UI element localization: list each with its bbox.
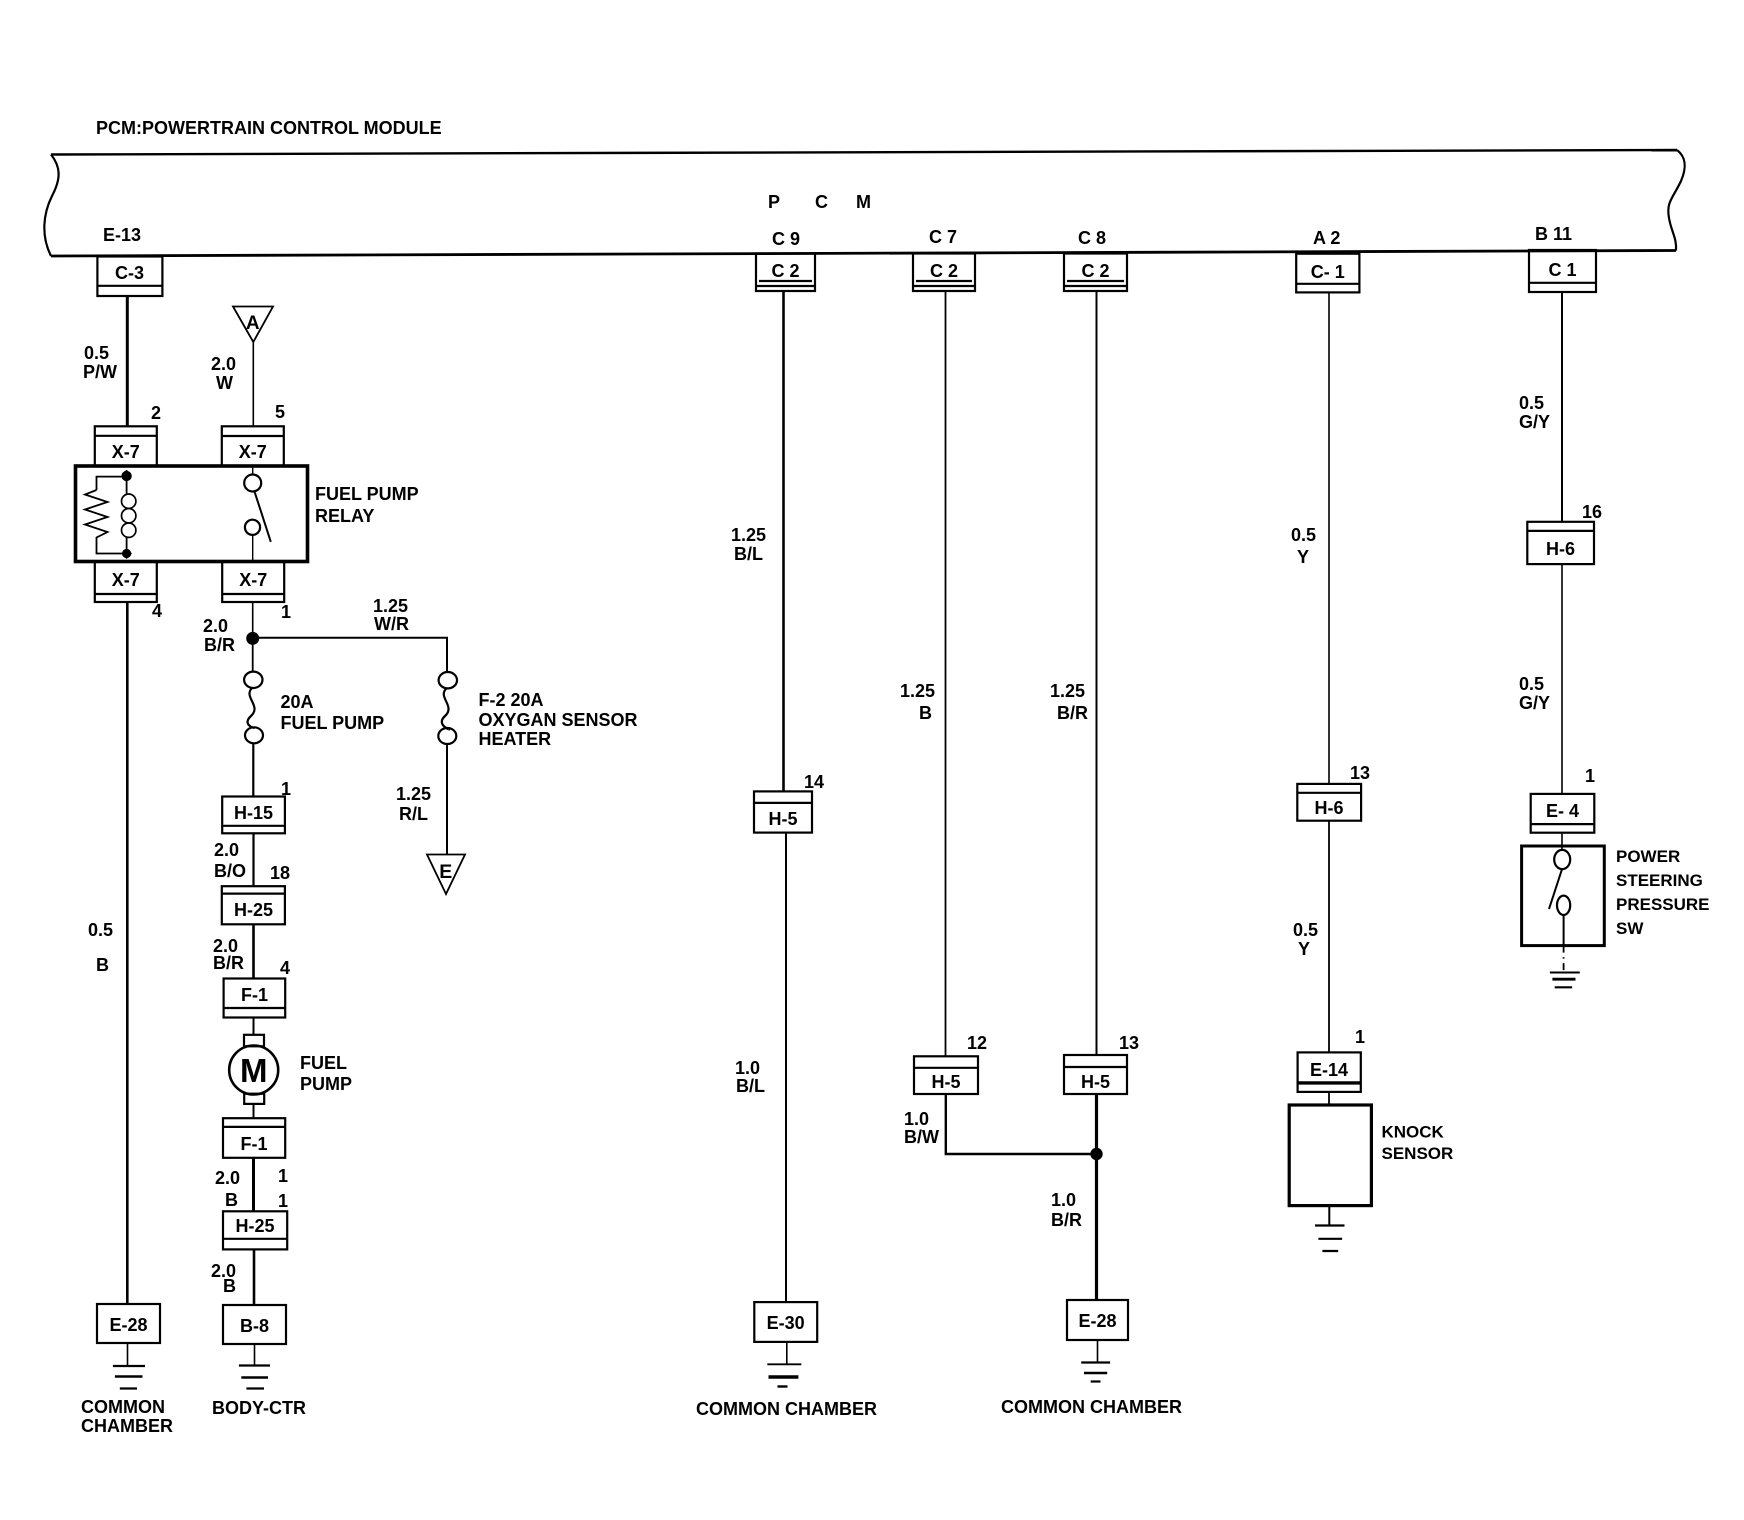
connector H-6 (A2 col): [1297, 784, 1361, 821]
svg-text:P: P: [768, 192, 780, 212]
svg-text:1.25: 1.25: [373, 596, 408, 616]
svg-text:0.5: 0.5: [1519, 674, 1544, 694]
label BODY-CTR: [212, 1398, 306, 1418]
wire H-6 to E-14 (0.5 Y): [1328, 821, 1330, 1053]
svg-text:1.0: 1.0: [1051, 1190, 1076, 1210]
connector H-5 (C7 col): [914, 1056, 978, 1094]
wire F-1 to H-25 (2.0 B): [252, 1158, 255, 1212]
label 0.5 Y upper: [1291, 525, 1316, 567]
svg-text:C: C: [815, 192, 828, 212]
label 0.5 P/W: [83, 343, 117, 382]
svg-text:0.5: 0.5: [84, 343, 109, 363]
svg-text:1: 1: [278, 1166, 288, 1186]
svg-text:1.0: 1.0: [904, 1109, 929, 1129]
svg-text:C 2: C 2: [930, 261, 958, 281]
svg-text:B: B: [223, 1276, 236, 1296]
connector H-5 (C8 col): [1064, 1055, 1127, 1094]
triangle node E: [427, 855, 465, 895]
wire E-13/C-3 to X-7 pin2 (0.5 P/W): [126, 296, 129, 426]
connector H-5 (C9 col): [754, 791, 812, 832]
label FUEL PUMP RELAY: [315, 484, 419, 526]
label 0.5 G/Y lower: [1519, 674, 1550, 713]
svg-text:2: 2: [151, 403, 161, 423]
label 2.0 B mid: [215, 1168, 240, 1210]
connector E-4: [1531, 794, 1595, 833]
svg-text:KNOCK: KNOCK: [1382, 1123, 1445, 1142]
svg-text:A 2: A 2: [1313, 228, 1340, 248]
pin 1 (E-14): [1355, 1027, 1365, 1047]
svg-text:PCM:POWERTRAIN CONTROL MODULE: PCM:POWERTRAIN CONTROL MODULE: [96, 118, 442, 138]
connector X-7 bottom-left: [95, 562, 157, 602]
svg-text:5: 5: [275, 402, 285, 422]
label POWER STEERING PRESSURE SW: [1616, 847, 1710, 938]
wire H-5 pin12 to junction (1.0 B/W): [946, 1094, 1097, 1154]
svg-text:1: 1: [281, 602, 291, 622]
svg-text:B: B: [225, 1190, 238, 1210]
svg-text:X-7: X-7: [239, 570, 267, 590]
svg-text:E-13: E-13: [103, 225, 141, 245]
label 1.25 R/L: [396, 784, 431, 824]
connector H-25: [222, 886, 285, 924]
svg-text:HEATER: HEATER: [479, 729, 552, 749]
svg-text:B: B: [96, 955, 109, 975]
label F-2 20A OXYGAN SENSOR HEATER: [479, 690, 638, 749]
label 1.25 B/L: [731, 525, 766, 564]
wire fuse to H-15 (2.0 B/O): [252, 744, 254, 797]
pin 18: [270, 863, 290, 883]
svg-text:0.5: 0.5: [88, 920, 113, 940]
label COMMON CHAMBER right: [1001, 1397, 1182, 1417]
svg-text:H-6: H-6: [1314, 798, 1343, 818]
wire B11/C1 to H-6 (0.5 G/Y): [1561, 292, 1563, 522]
label 1.25 B/R: [1050, 681, 1088, 723]
label 2.0 B lower: [211, 1261, 236, 1296]
svg-text:14: 14: [804, 772, 824, 792]
svg-text:W: W: [216, 373, 233, 393]
PCM module title: [96, 118, 442, 138]
wire E-4 to pressure switch: [1561, 833, 1563, 849]
label 2.0 W: [211, 354, 236, 393]
svg-text:2.0: 2.0: [211, 354, 236, 374]
pin 5: [275, 402, 285, 422]
svg-text:BODY-CTR: BODY-CTR: [212, 1398, 306, 1418]
wire A2/C-1 to H-6 (0.5 Y): [1328, 292, 1330, 784]
fuse F-2 20A oxygen sensor heater: [438, 672, 457, 744]
connector E-28 right: [1067, 1300, 1128, 1340]
svg-text:PRESSURE: PRESSURE: [1616, 895, 1710, 914]
label 1.0 B/L: [735, 1058, 765, 1096]
triangle node A: [233, 307, 273, 343]
label COMMON CHAMBER left: [81, 1397, 173, 1436]
svg-text:X-7: X-7: [239, 442, 267, 462]
connector C-3: [97, 257, 162, 297]
svg-text:P/W: P/W: [83, 362, 117, 382]
svg-text:COMMON: COMMON: [81, 1397, 165, 1417]
svg-text:X-7: X-7: [112, 570, 140, 590]
wire C7/C2 to H-5 (1.25 B): [945, 291, 947, 1056]
node junction B/W B/R: [1090, 1148, 1102, 1160]
inductor L1 relay coil: [122, 494, 136, 537]
label FUEL PUMP (motor): [300, 1053, 352, 1094]
svg-text:4: 4: [152, 601, 162, 621]
svg-text:W/R: W/R: [374, 614, 409, 634]
svg-text:SW: SW: [1616, 919, 1644, 938]
connector C-1: [1296, 254, 1359, 293]
node relay bottom junction: [121, 548, 132, 559]
wire oxygen fuse to triangle E (1.25 R/L): [446, 744, 448, 854]
connector H-25 lower: [223, 1211, 287, 1249]
svg-text:1.25: 1.25: [1050, 681, 1085, 701]
svg-text:1.25: 1.25: [900, 681, 935, 701]
svg-text:2.0: 2.0: [215, 1168, 240, 1188]
wire relay coil top stubs: [97, 470, 127, 554]
wire E-14 to knock sensor: [1328, 1092, 1330, 1105]
svg-text:20A: 20A: [281, 692, 314, 712]
label COMMON CHAMBER middle: [696, 1399, 877, 1419]
label 2.0 B/O upper: [214, 840, 246, 881]
node C 9: [772, 229, 800, 249]
svg-text:2.0: 2.0: [214, 840, 239, 860]
label 1.0 B/W: [904, 1109, 939, 1147]
connector X-7 bottom-right: [222, 562, 284, 602]
node junction fuel pump feed: [246, 632, 259, 645]
svg-text:B/R: B/R: [213, 953, 244, 973]
wire H-5 to E-30 (1.0 B/L): [785, 833, 787, 1303]
svg-text:G/Y: G/Y: [1519, 693, 1550, 713]
motor M1 FUEL PUMP: [229, 1035, 278, 1104]
svg-text:1: 1: [278, 1191, 288, 1211]
pin 16: [1582, 502, 1602, 522]
connector H-6 (B11 col): [1527, 522, 1594, 564]
svg-text:4: 4: [280, 958, 290, 978]
connector C2 (C7): [913, 254, 975, 292]
svg-text:B 11: B 11: [1535, 224, 1572, 244]
svg-text:A: A: [246, 313, 260, 334]
label 20A FUEL PUMP: [281, 692, 385, 733]
svg-text:H-25: H-25: [235, 1216, 274, 1236]
node C 7: [929, 227, 957, 247]
wire branch to oxygen heater fuse (1.25 W/R): [253, 638, 447, 672]
connector C2 (C9): [756, 254, 815, 292]
connector X-7 top-right: [222, 426, 284, 465]
svg-text:H-25: H-25: [234, 900, 273, 920]
svg-text:M: M: [240, 1052, 268, 1089]
svg-text:E-14: E-14: [1310, 1060, 1348, 1080]
pin 1 (X-7): [281, 602, 291, 622]
node A 2: [1313, 228, 1340, 248]
label 0.5 G/Y upper: [1519, 393, 1550, 432]
svg-text:0.5: 0.5: [1291, 525, 1316, 545]
svg-text:1: 1: [1585, 766, 1595, 786]
connector E-14: [1298, 1052, 1361, 1092]
svg-text:E-28: E-28: [1078, 1311, 1116, 1331]
PCM module U1 outline: [44, 150, 1684, 256]
svg-text:C 7: C 7: [929, 227, 957, 247]
svg-text:F-1: F-1: [241, 1134, 268, 1154]
svg-text:H-5: H-5: [931, 1072, 960, 1092]
connector X-7 top-left: [95, 426, 157, 465]
connector C1 (B11): [1529, 250, 1596, 292]
pin 14: [804, 772, 824, 792]
ground (B-8 BODY-CTR): [239, 1344, 270, 1389]
pin 1 (F-1 lower): [278, 1166, 288, 1186]
pin 13 (H-6): [1350, 763, 1370, 783]
svg-text:C 8: C 8: [1078, 228, 1106, 248]
svg-text:12: 12: [967, 1033, 987, 1053]
svg-text:C 2: C 2: [1081, 261, 1109, 281]
pin 4: [152, 601, 162, 621]
svg-text:SENSOR: SENSOR: [1382, 1144, 1454, 1163]
pin 12: [967, 1033, 987, 1053]
wire motor to F-1 lower: [253, 1104, 255, 1118]
pin 1 (H-15): [281, 779, 291, 799]
label 2.0 B/R: [203, 616, 235, 655]
svg-text:1.25: 1.25: [731, 525, 766, 545]
svg-text:H-5: H-5: [768, 809, 797, 829]
knock sensor box: [1289, 1105, 1371, 1206]
switch contact bottom: [1557, 896, 1570, 915]
svg-text:RELAY: RELAY: [315, 506, 374, 526]
pin 13 (H-5): [1119, 1033, 1139, 1053]
svg-text:M: M: [856, 192, 871, 212]
label 0.5 Y lower: [1293, 920, 1318, 959]
svg-text:H-15: H-15: [234, 803, 273, 823]
node C 8: [1078, 228, 1106, 248]
switch contact top: [1554, 850, 1570, 869]
svg-text:C-3: C-3: [115, 263, 144, 283]
wire C8/C2 to H-5 (1.25 B/R): [1096, 291, 1098, 1055]
wire junction to fuse F fuel pump: [252, 638, 254, 671]
wire X-7 pin1 to junction: [252, 602, 254, 638]
pin 4 (F-1): [280, 958, 290, 978]
svg-text:PUMP: PUMP: [300, 1074, 352, 1094]
svg-text:1: 1: [1355, 1027, 1365, 1047]
svg-text:FUEL: FUEL: [300, 1053, 347, 1073]
svg-text:2.0: 2.0: [203, 616, 228, 636]
svg-text:Y: Y: [1297, 547, 1309, 567]
connector E-30: [754, 1302, 817, 1342]
svg-text:H-5: H-5: [1081, 1072, 1110, 1092]
fuse 20A FUEL PUMP: [244, 672, 263, 744]
pin 1 (E-4): [1585, 766, 1595, 786]
svg-text:B/O: B/O: [214, 861, 246, 881]
svg-text:Y: Y: [1298, 939, 1310, 959]
svg-text:F-1: F-1: [241, 985, 268, 1005]
label 2.0 B/R lower: [213, 936, 244, 973]
svg-text:0.5: 0.5: [1293, 920, 1318, 940]
svg-text:FUEL PUMP: FUEL PUMP: [315, 484, 419, 504]
svg-text:CHAMBER: CHAMBER: [81, 1416, 173, 1436]
connector C2 (C8): [1064, 254, 1127, 292]
svg-text:0.5: 0.5: [1519, 393, 1544, 413]
svg-text:FUEL PUMP: FUEL PUMP: [281, 713, 385, 733]
connector E-28 left: [97, 1304, 160, 1343]
wire switch to box bottom: [1563, 915, 1565, 946]
node E-13: [103, 225, 141, 245]
ground (E-30): [767, 1342, 801, 1387]
ground (knock sensor): [1315, 1206, 1345, 1251]
label 1.25 W/R: [373, 596, 409, 634]
svg-text:B/W: B/W: [904, 1127, 939, 1147]
wire H-25 to F-1 (2.0 B/R): [252, 924, 255, 978]
svg-text:B-8: B-8: [240, 1316, 269, 1336]
svg-text:COMMON CHAMBER: COMMON CHAMBER: [1001, 1397, 1182, 1417]
svg-text:16: 16: [1582, 502, 1602, 522]
svg-text:F-2 20A: F-2 20A: [479, 690, 544, 710]
svg-text:C 2: C 2: [771, 261, 799, 281]
wire X-7 pin4 down (0.5 B): [126, 602, 129, 1304]
ground (E-28 left): [113, 1343, 145, 1389]
svg-text:POWER: POWER: [1616, 847, 1680, 866]
wire F-1 to motor: [253, 1018, 255, 1035]
label 0.5 B (left): [88, 920, 113, 975]
connector F-1 lower: [223, 1118, 285, 1158]
pin 1 (H-25 lower): [278, 1191, 288, 1211]
switch lever: [1549, 870, 1562, 909]
svg-text:C 1: C 1: [1548, 260, 1576, 280]
svg-text:E: E: [439, 861, 452, 883]
svg-text:18: 18: [270, 863, 290, 883]
wire C9/C2 to H-5 (1.25 B/L): [782, 291, 785, 791]
svg-text:13: 13: [1350, 763, 1370, 783]
ground (pressure switch): [1550, 946, 1580, 988]
svg-text:E- 4: E- 4: [1546, 801, 1579, 821]
svg-text:R/L: R/L: [399, 804, 428, 824]
connector B-8: [223, 1305, 286, 1344]
wire H-5 pin13 to E-28 (1.0 B/R): [1095, 1094, 1098, 1300]
power steering pressure switch S1 box: [1522, 846, 1605, 946]
ground (E-28 right): [1081, 1340, 1110, 1382]
svg-text:STEERING: STEERING: [1616, 871, 1703, 890]
node relay top junction: [121, 471, 131, 481]
svg-text:OXYGAN SENSOR: OXYGAN SENSOR: [479, 710, 638, 730]
resistor R1 (relay): [85, 490, 108, 540]
label 1.0 B/R: [1051, 1190, 1082, 1230]
svg-text:COMMON CHAMBER: COMMON CHAMBER: [696, 1399, 877, 1419]
svg-text:B/R: B/R: [1057, 703, 1088, 723]
node PCM letters: [768, 192, 871, 212]
svg-text:G/Y: G/Y: [1519, 412, 1550, 432]
relay K1 FUEL PUMP RELAY box: [76, 466, 308, 562]
node B 11: [1535, 224, 1572, 244]
svg-text:1.25: 1.25: [396, 784, 431, 804]
wire H-6 to E-4 (0.5 G/Y): [1561, 564, 1563, 794]
svg-text:C 9: C 9: [772, 229, 800, 249]
svg-text:1.0: 1.0: [735, 1058, 760, 1078]
svg-text:B/R: B/R: [1051, 1210, 1082, 1230]
svg-text:B/L: B/L: [736, 1076, 765, 1096]
wire H-15 to H-25 (2.0 B/O): [252, 833, 254, 886]
label 1.25 B: [900, 681, 935, 723]
svg-text:B/L: B/L: [734, 544, 763, 564]
svg-text:B: B: [919, 703, 932, 723]
relay switch contacts: [244, 466, 271, 562]
svg-text:X-7: X-7: [112, 442, 140, 462]
label KNOCK SENSOR: [1382, 1123, 1454, 1164]
svg-text:13: 13: [1119, 1033, 1139, 1053]
svg-text:H-6: H-6: [1546, 539, 1575, 559]
svg-text:B/R: B/R: [204, 635, 235, 655]
svg-text:E-28: E-28: [109, 1315, 147, 1335]
pin 2: [151, 403, 161, 423]
svg-text:C- 1: C- 1: [1311, 262, 1345, 282]
svg-text:E-30: E-30: [767, 1313, 805, 1333]
wire A to X-7 pin5: [252, 342, 254, 426]
connector H-15: [222, 797, 285, 834]
wire H-25 to B-8 (2.0 B): [253, 1249, 256, 1305]
connector F-1 upper: [224, 979, 286, 1018]
